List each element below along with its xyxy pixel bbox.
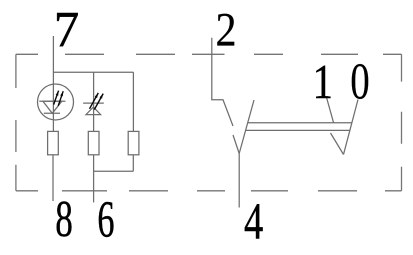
svg-text:6: 6 bbox=[97, 190, 114, 248]
svg-text:8: 8 bbox=[55, 189, 73, 248]
svg-text:7: 7 bbox=[54, 2, 79, 58]
svg-text:0: 0 bbox=[350, 52, 370, 110]
svg-text:1: 1 bbox=[313, 54, 333, 109]
svg-text:4: 4 bbox=[244, 192, 263, 250]
svg-text:2: 2 bbox=[215, 3, 236, 56]
